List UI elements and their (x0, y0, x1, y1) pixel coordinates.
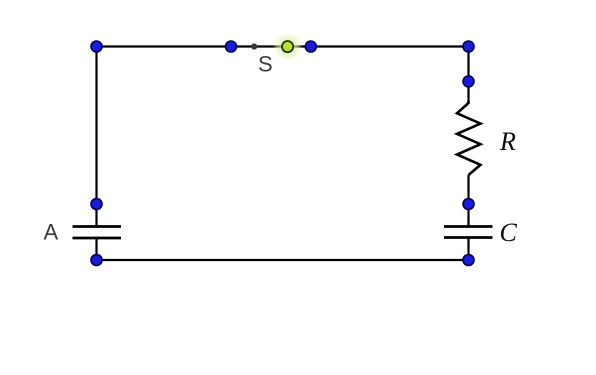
wire right upper (top-right corner down to resistor) (467, 47, 469, 104)
node battery top (91, 199, 102, 210)
node top-left corner (91, 41, 102, 52)
wire left (top-left corner down to battery A) (95, 47, 97, 227)
wire top (battery + to switch to resistor branch) (97, 45, 469, 47)
node switch right (305, 41, 316, 52)
capacitor C plates (444, 227, 493, 238)
svg-text:S: S (258, 52, 273, 77)
node switch left (226, 41, 237, 52)
node between R and C (463, 199, 474, 210)
svg-text:R: R (499, 127, 516, 156)
node bottom-right corner (463, 255, 474, 266)
wire left lower (battery A to bottom-left node) (95, 238, 97, 260)
node top-right corner (463, 41, 474, 52)
node resistor top (463, 76, 474, 87)
wire right lower (capacitor C to bottom-right node) (467, 238, 469, 261)
node bottom-left corner (91, 255, 102, 266)
svg-text:C: C (500, 218, 518, 247)
battery A plates (73, 227, 122, 239)
switch S contact node (highlighted green) (273, 32, 302, 61)
switch S pivot dot (251, 43, 257, 49)
resistor R zigzag (457, 101, 481, 175)
wire bottom (97, 259, 469, 261)
svg-text:A: A (44, 220, 59, 245)
wire right middle (resistor to capacitor C) (467, 175, 469, 227)
